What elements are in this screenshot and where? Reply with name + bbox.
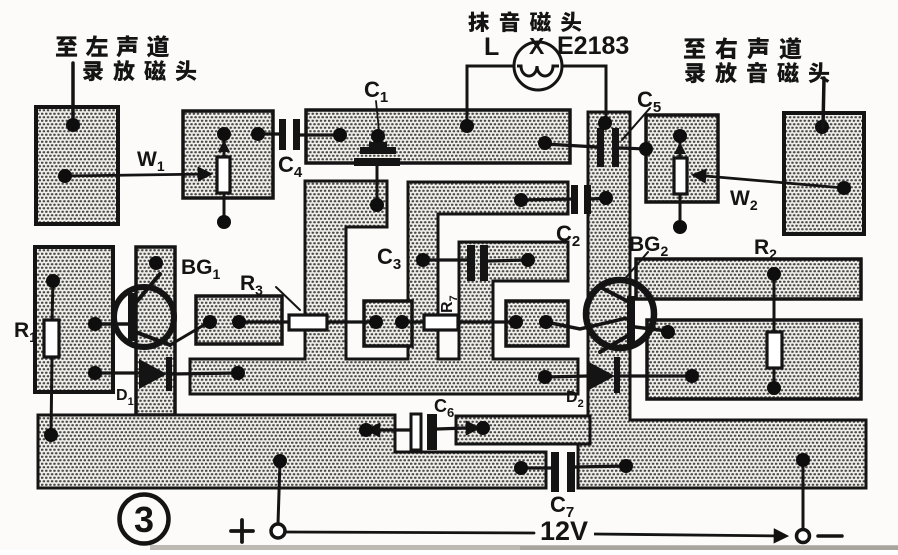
label: to right channel record/play head [684, 38, 705, 58]
scan artifact bottom edge [150, 545, 898, 550]
wire right head lead [823, 78, 824, 127]
wire left head lead [71, 63, 75, 126]
transistor BG1 [114, 287, 174, 347]
wire plus terminal [278, 461, 280, 524]
figure number 3 [120, 495, 169, 544]
node: W1 pad [183, 111, 273, 198]
svg-text:X: X [529, 33, 545, 59]
node: R1 left pad [35, 247, 113, 392]
svg-text:3: 3 [134, 499, 154, 540]
node: top right R2 bar [636, 259, 861, 299]
node: C6 arm [456, 416, 590, 444]
svg-text:L: L [484, 33, 499, 61]
capacitor C7 [521, 466, 552, 469]
erase head L X E2183 [467, 66, 514, 126]
resistor R1 [52, 281, 53, 322]
plus terminal circle [271, 524, 285, 538]
wire supply line right with arrow [594, 534, 786, 536]
node: R3 pad island [196, 296, 282, 344]
potentiometer W1 [223, 134, 226, 222]
wire supply line left [286, 532, 534, 533]
node: left channel head pad [36, 107, 118, 224]
node: right channel head pad [784, 113, 864, 234]
node: BG1 collector strip [136, 247, 175, 415]
node: right vertical strip with bottom-right ground bar [578, 112, 866, 488]
wire W2 wiper arrow [694, 175, 844, 188]
wire W1 wiper arrow [65, 174, 210, 176]
diode D1 [95, 371, 140, 374]
svg-text:12V: 12V [540, 516, 588, 546]
node: coupling pad island 1 [364, 301, 412, 346]
resistor R3 [239, 320, 290, 323]
wire minus terminal [802, 460, 805, 529]
minus terminal circle [797, 530, 810, 543]
plus sign [231, 529, 253, 533]
svg-text:E2183: E2183 [557, 32, 629, 60]
node: W2 pad [646, 115, 718, 202]
label: erase head [468, 12, 489, 32]
node: top oscillator bar [306, 110, 570, 163]
transistor BG2 [586, 280, 654, 348]
node: middle right block [647, 320, 861, 399]
label: to left channel record/play head [56, 36, 77, 56]
diode D2 [545, 376, 588, 377]
capacitor C1 (trimmer) [376, 101, 379, 131]
resistor R7 [402, 320, 424, 323]
node: central comb copper region [190, 181, 578, 394]
capacitor C3 [423, 258, 468, 261]
potentiometer W2 [679, 136, 682, 227]
capacitor C5 [545, 144, 597, 147]
capacitor C6 [368, 429, 380, 432]
capacitor C2 [521, 199, 572, 200]
resistor R2 [773, 274, 776, 332]
node: bottom left supply bar [38, 415, 546, 488]
node: coupling pad island 2 [506, 301, 568, 346]
capacitor C4 [258, 132, 279, 135]
pad dots [66, 118, 80, 132]
minus sign [818, 534, 842, 538]
